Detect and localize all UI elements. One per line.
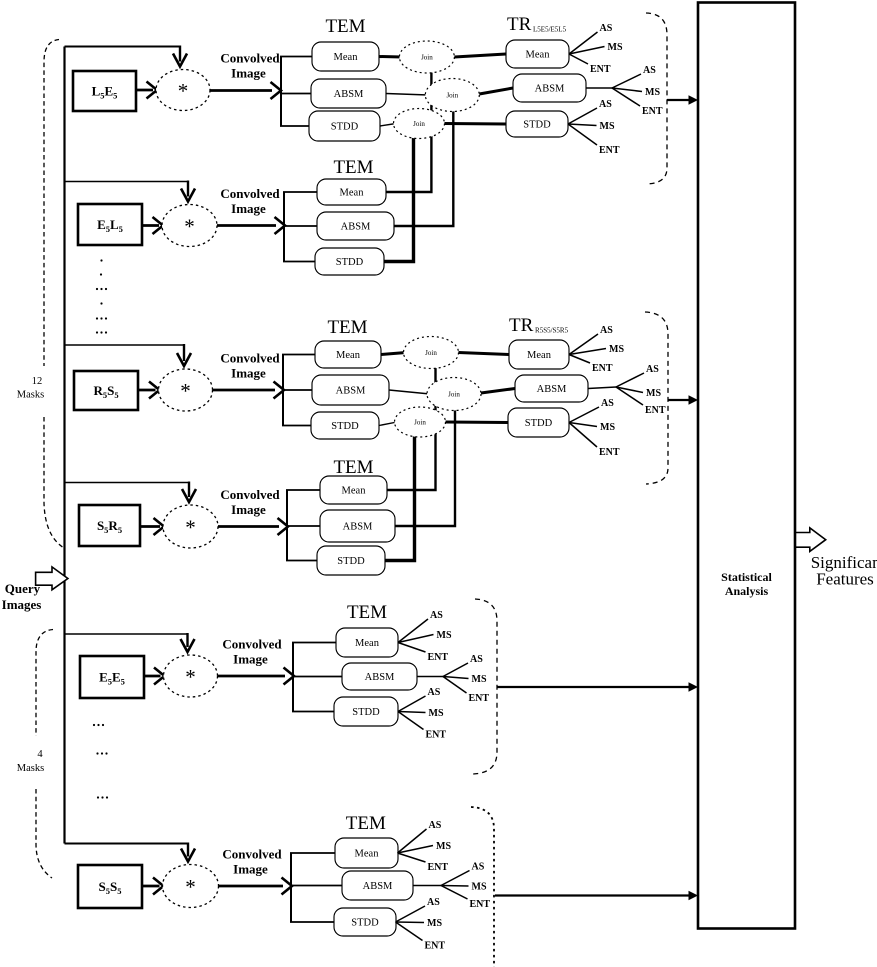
wire fan line to AS: [398, 829, 427, 853]
svg-text:STDD: STDD: [351, 918, 379, 929]
wire to statistical analysis 2: [668, 399, 689, 401]
svg-text:MS: MS: [429, 708, 444, 719]
convolution op row 3 (dashed ellipse with *): [159, 369, 213, 411]
wire lower STDD up to Join3 set 1: [384, 137, 414, 262]
wire fan line to MS: [616, 387, 643, 393]
svg-text:AS: AS: [599, 99, 612, 110]
wire drop into convolution row 2: [187, 181, 189, 197]
svg-text:AS: AS: [643, 65, 656, 76]
wire fan line to AS: [398, 696, 426, 712]
wire to statistical analysis 1: [667, 99, 689, 101]
TEM box ABSM group 4: [320, 510, 395, 542]
wire drop into convolution row 3: [183, 344, 185, 361]
join op Join1 set 1: [399, 41, 454, 73]
TEM box STDD group 1: [309, 111, 380, 141]
wire Join1 to TR Mean set 2: [459, 353, 510, 355]
wire fan line to MS: [398, 635, 434, 643]
TEM box STDD group 6: [334, 908, 396, 936]
wire mask to convolution row 3: [138, 389, 156, 392]
wire STDD to Join3 set 1: [380, 124, 396, 127]
wire lower ABSM up to Join2 set 2: [395, 408, 455, 526]
wire branch row 2: [65, 181, 189, 183]
wire convolution to TEM group 6: [219, 885, 284, 888]
svg-text:TEM: TEM: [333, 457, 373, 478]
wire fan line to MS: [569, 47, 605, 55]
bracket 12 masks (dashed): [44, 40, 59, 367]
TEM input bracket group 6: [290, 853, 292, 922]
svg-text:ENT: ENT: [425, 941, 446, 952]
svg-text:Join: Join: [446, 92, 458, 100]
svg-text:ABSM: ABSM: [535, 84, 565, 95]
TR box Mean group 1: [506, 40, 569, 68]
svg-text:*: *: [184, 215, 195, 239]
bracket 4 masks (dashed): [36, 630, 53, 737]
svg-text:*: *: [185, 665, 196, 689]
svg-text:*: *: [185, 516, 196, 540]
svg-text:Mean: Mean: [355, 638, 380, 649]
svg-text:MS: MS: [609, 344, 624, 355]
wire Join1 to TR Mean set 1: [454, 54, 506, 57]
svg-text:Query: Query: [5, 581, 41, 596]
svg-text:Statistical: Statistical: [721, 570, 772, 584]
mask box E5L5: [78, 204, 142, 245]
svg-text:AS: AS: [646, 364, 659, 375]
wire fan line to AS: [568, 108, 597, 124]
TEM box Mean group 5: [336, 628, 398, 657]
svg-text:STDD: STDD: [352, 707, 380, 718]
convolution op row 5 (dashed ellipse with *): [164, 655, 218, 697]
svg-text:Convolved: Convolved: [220, 186, 280, 201]
svg-text:ENT: ENT: [426, 730, 447, 741]
significant features hollow arrow: [796, 528, 826, 552]
svg-text:ABSM: ABSM: [341, 222, 371, 233]
TR box ABSM group 1: [513, 74, 586, 102]
svg-text:Mean: Mean: [340, 188, 365, 199]
svg-text:Image: Image: [231, 502, 266, 517]
wire fan line to MS: [441, 885, 469, 888]
wire fan line to ENT: [398, 643, 426, 653]
TEM box STDD group 3: [311, 412, 379, 439]
wire ABSM to fan vertex group 6: [413, 885, 441, 887]
wire convolution to TEM group 2: [217, 224, 276, 227]
svg-text:Features: Features: [816, 570, 874, 589]
join op Join3 set 2: [395, 407, 446, 437]
wire fan line to MS: [612, 88, 642, 92]
TEM input bracket group 5: [292, 643, 294, 712]
svg-text:Image: Image: [231, 201, 266, 216]
svg-text:12: 12: [32, 376, 43, 387]
TR box STDD group 2: [508, 408, 569, 437]
svg-text:Join: Join: [414, 419, 426, 427]
svg-text:Analysis: Analysis: [725, 584, 769, 598]
svg-text:Convolved: Convolved: [222, 637, 282, 652]
convolution op row 4 (dashed ellipse with *): [163, 505, 218, 548]
svg-text:ENT: ENT: [599, 145, 620, 156]
wire STDD to Join3 set 2: [379, 422, 397, 426]
wire branch row 6: [65, 843, 189, 845]
TEM input bracket group 3: [282, 355, 284, 426]
wire fan line to ENT: [616, 387, 643, 405]
wire fan line to AS: [441, 871, 470, 886]
wire Join3 to TR STDD set 2: [446, 421, 509, 425]
TEM input bracket group 4: [286, 490, 288, 561]
wire lower Mean up to Join1 set 2: [387, 367, 436, 491]
wire fan line to ENT: [443, 677, 467, 694]
join op Join2 set 1: [425, 79, 479, 112]
svg-text:MS: MS: [472, 674, 487, 685]
statistical analysis box: [698, 3, 795, 929]
svg-text:MS: MS: [608, 42, 623, 53]
svg-text:TEM: TEM: [325, 16, 365, 37]
svg-text:MS: MS: [436, 841, 451, 852]
wire drop into convolution row 6: [187, 843, 189, 857]
convolution op row 6 (dashed ellipse with *): [163, 865, 219, 908]
svg-text:Image: Image: [233, 652, 268, 667]
svg-text:ENT: ENT: [590, 64, 611, 75]
join op Join1 set 2: [404, 337, 459, 369]
svg-text:STDD: STDD: [523, 120, 551, 131]
svg-text:ENT: ENT: [599, 447, 620, 458]
wire fan line to ENT: [568, 124, 597, 145]
svg-text:ABSM: ABSM: [334, 89, 364, 100]
svg-text:Convolved: Convolved: [220, 351, 280, 366]
svg-text:ABSM: ABSM: [343, 522, 373, 533]
wire branch row 5: [65, 633, 188, 635]
query images hollow arrow: [36, 567, 68, 590]
svg-text:STDD: STDD: [525, 418, 553, 429]
TEM box Mean group 2: [317, 179, 386, 205]
svg-text:AS: AS: [470, 654, 483, 665]
wire ABSM to fan vertex group 2: [588, 387, 616, 389]
wire fan line to AS: [569, 407, 599, 423]
convolution op row 2 (dashed ellipse with *): [162, 205, 217, 247]
wire drop into convolution row 1: [179, 46, 181, 62]
wire drop into convolution row 4: [188, 482, 190, 498]
wire drop into convolution row 5: [186, 633, 188, 647]
svg-text:AS: AS: [600, 325, 613, 336]
bracket TEM group 6 output (dotted): [471, 807, 494, 967]
mask box E5E5: [80, 656, 144, 698]
wire mask to convolution row 4: [140, 525, 160, 528]
wire Join2 to TR ABSM set 1: [479, 88, 513, 94]
svg-text:Convolved: Convolved: [220, 51, 280, 66]
TEM box Mean group 6: [335, 838, 398, 868]
svg-text:AS: AS: [430, 610, 443, 621]
join op Join2 set 2: [427, 378, 481, 411]
wire main trunk from query images: [63, 47, 65, 844]
wire convolution to TEM group 1: [210, 89, 272, 92]
svg-text:AS: AS: [428, 687, 441, 698]
TEM box Mean group 4: [320, 476, 387, 504]
svg-text:MS: MS: [472, 882, 487, 893]
TEM box ABSM group 1: [311, 79, 386, 108]
svg-text:TEM: TEM: [346, 813, 386, 834]
wire fan line to AS: [396, 906, 426, 922]
TEM box ABSM group 6: [342, 871, 413, 900]
svg-text:ENT: ENT: [470, 899, 491, 910]
wire fan line to MS: [569, 423, 597, 427]
svg-text:ENT: ENT: [642, 106, 663, 117]
svg-text:ENT: ENT: [428, 652, 449, 663]
wire fan line to AS: [616, 373, 644, 387]
svg-text:Image: Image: [231, 366, 266, 381]
TEM box ABSM group 5: [342, 663, 417, 690]
svg-text:Mean: Mean: [526, 50, 551, 61]
svg-text:Join: Join: [421, 54, 433, 62]
svg-text:Image: Image: [231, 66, 266, 81]
wire ABSM to Join2 set 2: [389, 390, 430, 394]
svg-text:ENT: ENT: [428, 862, 449, 873]
svg-text:MS: MS: [600, 121, 615, 132]
wire fan line to MS: [568, 124, 597, 126]
svg-text:MS: MS: [645, 87, 660, 98]
svg-text:ENT: ENT: [469, 693, 490, 704]
svg-text:Masks: Masks: [17, 763, 44, 774]
svg-text:MS: MS: [646, 388, 661, 399]
svg-text:AS: AS: [601, 398, 614, 409]
mask box S5R5: [79, 505, 140, 546]
wire branch row 1: [65, 46, 181, 48]
svg-text:AS: AS: [472, 862, 485, 873]
wire fan line to ENT: [569, 54, 588, 64]
wire fan line to ENT: [396, 922, 423, 941]
wire ABSM to fan vertex group 1: [586, 87, 612, 89]
wire fan line to AS: [443, 663, 468, 677]
svg-text:ENT: ENT: [592, 363, 613, 374]
wire convolution to TEM group 3: [213, 389, 276, 392]
wire fan line to ENT: [398, 712, 424, 730]
wire fan line to AS: [398, 619, 428, 643]
svg-text:Join: Join: [425, 349, 437, 357]
wire fan line to ENT: [441, 886, 468, 900]
svg-text:Mean: Mean: [342, 486, 367, 497]
svg-text:STDD: STDD: [331, 421, 359, 432]
mask box L5E5: [73, 71, 136, 111]
svg-text:*: *: [180, 379, 191, 403]
svg-text:ENT: ENT: [645, 405, 666, 416]
wire ABSM to Join2 set 1: [386, 94, 428, 96]
mask box R5S5: [74, 371, 138, 410]
wire to statistical analysis 4: [495, 894, 689, 896]
wire lower ABSM up to Join2 set 1: [394, 109, 453, 226]
svg-text:ABSM: ABSM: [365, 672, 395, 683]
svg-text:TEM: TEM: [327, 317, 367, 338]
wire lower Mean up to Join1 set 1: [386, 71, 431, 192]
wire mask to convolution row 2: [142, 224, 159, 227]
svg-text:*: *: [178, 79, 189, 103]
svg-text:Images: Images: [2, 597, 42, 612]
svg-text:MS: MS: [437, 630, 452, 641]
svg-text:AS: AS: [427, 897, 440, 908]
svg-text:MS: MS: [427, 918, 442, 929]
TEM box Mean group 3: [315, 341, 381, 368]
svg-text:TEM: TEM: [347, 602, 387, 623]
TEM input bracket group 1: [280, 57, 282, 127]
svg-text:*: *: [185, 875, 196, 899]
wire mask to convolution row 1: [136, 89, 153, 92]
wire fan line to ENT: [398, 853, 426, 862]
svg-text:STDD: STDD: [336, 257, 364, 268]
svg-text:ABSM: ABSM: [537, 384, 567, 395]
TEM box Mean group 1: [312, 42, 379, 71]
TEM box STDD group 5: [334, 697, 398, 726]
wire to statistical analysis 3: [497, 686, 689, 688]
TR box Mean group 2: [509, 340, 569, 369]
wire fan line to AS: [569, 32, 598, 54]
svg-text:Convolved: Convolved: [220, 487, 280, 502]
TEM box STDD group 4: [317, 546, 385, 575]
TEM box ABSM group 2: [317, 212, 394, 240]
svg-text:ABSM: ABSM: [363, 881, 393, 892]
wire branch row 3: [65, 344, 185, 346]
svg-text:Mean: Mean: [334, 52, 359, 63]
wire fan line to MS: [396, 921, 425, 924]
svg-text:MS: MS: [600, 422, 615, 433]
svg-text:4: 4: [37, 749, 43, 760]
wire ABSM to fan vertex group 5: [417, 676, 443, 678]
svg-text:Convolved: Convolved: [222, 847, 282, 862]
wire fan line to ENT: [612, 88, 640, 106]
dots between mask rows (4-mask group): [93, 724, 95, 726]
wire convolution to TEM group 5: [218, 675, 286, 678]
mask box S5S5: [78, 865, 142, 908]
bracket TEM group 5 output (dashed): [473, 599, 497, 774]
svg-text:Mean: Mean: [336, 350, 361, 361]
wire fan line to MS: [398, 846, 434, 854]
svg-text:Mean: Mean: [355, 849, 380, 860]
wire fan line to ENT: [569, 423, 597, 448]
svg-text:Image: Image: [233, 862, 268, 877]
svg-text:Mean: Mean: [527, 350, 552, 361]
svg-text:Join: Join: [413, 120, 425, 128]
svg-text:Join: Join: [448, 391, 460, 399]
wire fan line to MS: [569, 349, 606, 355]
wire convolution to TEM group 4: [218, 525, 279, 528]
wire branch row 4: [65, 482, 190, 484]
wire fan line to MS: [443, 677, 469, 679]
bracket TR group 1 output (dashed): [646, 13, 667, 184]
wire fan line to AS: [569, 334, 598, 355]
wire fan line to MS: [398, 712, 426, 713]
wire fan line to AS: [612, 74, 641, 88]
join op Join3 set 1: [394, 109, 445, 139]
wire fan line to ENT: [569, 355, 590, 364]
wire Mean to Join1 set 1: [379, 55, 402, 59]
svg-text:TEM: TEM: [333, 157, 373, 178]
svg-text:STDD: STDD: [331, 122, 359, 133]
TEM box STDD group 2: [315, 248, 384, 275]
TEM box ABSM group 3: [312, 375, 389, 405]
wire Join3 to TR STDD set 1: [445, 122, 507, 126]
TR box ABSM group 2: [515, 375, 588, 402]
svg-text:AS: AS: [429, 820, 442, 831]
svg-text:AS: AS: [600, 23, 613, 34]
convolution op row 1 (dashed ellipse with *): [156, 70, 210, 111]
TR box STDD group 1: [506, 111, 568, 137]
svg-text:ABSM: ABSM: [336, 386, 366, 397]
wire Join2 to TR ABSM set 2: [481, 389, 515, 394]
wire mask to convolution row 6: [142, 885, 160, 888]
dots between mask rows (12-mask group): [100, 259, 102, 261]
svg-text:Masks: Masks: [17, 390, 44, 401]
bracket TR group 2 output (dashed): [645, 312, 668, 484]
svg-text:STDD: STDD: [337, 556, 365, 567]
TEM input bracket group 2: [283, 192, 285, 262]
wire Mean to Join1 set 2: [381, 353, 406, 355]
wire lower STDD up to Join3 set 2: [385, 435, 415, 561]
wire mask to convolution row 5: [144, 675, 161, 678]
